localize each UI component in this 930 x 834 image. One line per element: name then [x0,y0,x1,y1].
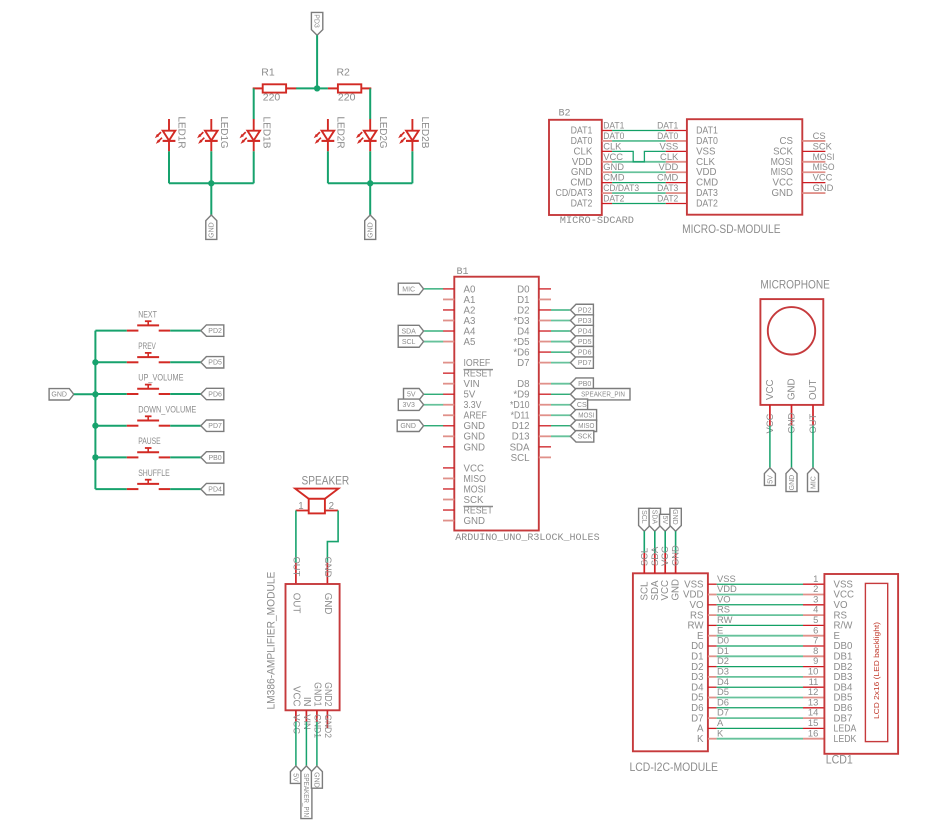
svg-text:GND: GND [209,222,216,238]
net label E [717,624,723,635]
net flag SCL [398,336,423,347]
svg-text:MISO: MISO [771,167,794,178]
svg-text:GND: GND [313,772,320,788]
pin *D6 (right row 6) of B1 [513,347,551,358]
svg-text:PREV: PREV [138,341,156,351]
pin label DB5 inside LCD1 [834,693,853,704]
svg-text:CS: CS [813,130,826,141]
pin GND of LM386 module [326,563,328,584]
wire junction to R1 [296,87,317,89]
net flag PD6 [570,346,593,357]
net label RW [717,614,733,625]
pin label DB7 inside LCD1 [834,713,853,724]
pin label IN inside LM386 [301,697,312,707]
pin SDA (right row 15) of B1 [510,442,551,453]
pin VDD of I2C module [683,590,717,601]
svg-text:5V: 5V [767,475,774,484]
pushbutton PREV [127,341,170,362]
svg-text:NEXT: NEXT [138,309,157,319]
svg-text:VCC: VCC [660,580,671,600]
pin 3.3V (left row 11) of B1 [443,400,482,411]
svg-text:CLK: CLK [574,146,593,157]
wire B1 to PD6 flag [551,351,570,353]
svg-text:220: 220 [263,92,281,104]
svg-text:MICROPHONE: MICROPHONE [760,280,830,292]
svg-text:GND: GND [368,222,375,238]
net flag PD2 [570,304,593,315]
svg-text:GND: GND [670,545,681,566]
pin D2 (right row 2) of B1 [517,305,551,316]
pin label DB0 inside LCD1 [834,641,853,652]
wire bus to switch NEXT [95,330,126,332]
svg-text:VDD: VDD [572,157,592,168]
wire B1 to MOSI flag [551,414,570,416]
pin 4 of LCD1 [803,614,824,616]
pushbutton PAUSE [127,436,170,457]
svg-text:A4: A4 [464,326,476,337]
wire 3V3 flag to B1 [424,404,444,406]
speaker SPEAKER symbol [295,489,338,514]
LCD I2C module outline [633,573,708,751]
pin label DB4 inside LCD1 [834,682,853,693]
svg-text:PD3: PD3 [578,318,592,325]
wire bus to switch UP_VOLUME [95,393,126,395]
wire D2 to LCD1 pin 9 [717,666,803,668]
wire button bus [94,331,96,490]
pin RS of I2C module [690,610,717,621]
pin label VCC inside LCD1 [834,590,854,601]
wire CLK with jog [612,151,666,161]
svg-text:AREF: AREF [464,411,487,422]
pin number 14 [808,707,818,718]
svg-text:5V: 5V [661,516,668,525]
svg-text:CMD: CMD [696,178,718,189]
wire VSS to LCD1 pin 1 [717,583,803,585]
value 220 of R2 [338,92,356,104]
pin SDA of I2C module [654,553,656,573]
svg-text:LED2R: LED2R [335,117,347,149]
svg-text:5V: 5V [464,390,476,401]
wire speaker pin1 to OUT [295,511,297,563]
wire B1 to SPEAKER_PIN flag [551,393,570,395]
svg-text:LM386-AMPLIFIER_MODULE: LM386-AMPLIFIER_MODULE [265,572,277,710]
pin A4 (left row 4) of B1 [443,326,476,337]
net label DAT3 (module side) [657,182,678,193]
pin label VCC inside microphone [765,380,776,400]
net flag SDA [398,325,423,336]
pin DAT1 of B2 [571,126,612,137]
svg-text:DAT2: DAT2 [603,193,624,204]
svg-text:GND: GND [464,421,486,432]
svg-text:LEDK: LEDK [834,734,857,745]
pin label RS inside LCD1 [834,610,848,621]
net label MOSI [813,151,835,162]
wire B1 to PD5 flag [551,341,570,343]
pin number 6 [813,624,818,635]
svg-text:SHUFFLE: SHUFFLE [138,468,170,478]
micro-SD module outline [687,119,802,215]
svg-text:MICRO-SDCARD: MICRO-SDCARD [560,215,634,227]
LM386 amplifier module outline [286,584,340,710]
pin number 13 [808,696,818,707]
ground flag GND (buttons) [49,389,74,400]
svg-text:PAUSE: PAUSE [138,436,160,446]
net label VDD [717,583,737,594]
svg-text:B1: B1 [457,266,469,278]
net label GND [670,545,681,566]
pin label VDD inside module [696,167,716,178]
pin MOSI of SD module [771,157,826,168]
node junction bus2 [367,180,373,186]
svg-text:OUT: OUT [291,593,302,614]
pin 16 of LCD1 [803,738,824,740]
net flag PD7 [570,357,593,368]
net flag SDA [649,508,660,531]
svg-text:MOSI: MOSI [578,413,594,420]
svg-text:GND: GND [464,516,486,527]
svg-text:DAT2: DAT2 [657,193,678,204]
wire 5V flag to B1 [424,393,444,395]
svg-text:*D6: *D6 [513,347,529,358]
label LCD-I2C-MODULE [630,762,719,774]
wire bus to switch PAUSE [95,456,126,458]
wire PD3 to junction [316,35,318,88]
net flag PD5 [570,336,593,347]
LED LED1B [240,117,273,152]
svg-text:SCL: SCL [640,510,647,524]
pin 11 of LCD1 [803,686,824,688]
wire cathode bus group2 [328,182,413,184]
pin label DAT2 inside module [696,199,718,210]
wire B1 to PD2 flag [551,309,570,311]
svg-text:MIC: MIC [402,286,415,293]
node junction bus [92,391,98,397]
pin VDD of SD module [666,171,687,173]
net label GND [323,557,334,578]
svg-text:CD/DAT3: CD/DAT3 [603,182,639,193]
pin VCC of microphone [769,405,771,426]
pin D6 of I2C module [691,703,716,714]
svg-text:A1: A1 [464,295,476,306]
pin A1 (left row 1) of B1 [443,295,475,306]
LED LED2G [356,117,389,152]
svg-text:VSS: VSS [660,140,679,151]
pin D8 (right row 9) of B1 [517,379,551,390]
pin D0 of I2C module [691,641,716,652]
wire B1 to PD4 flag [551,330,570,332]
svg-text:SCK: SCK [464,495,484,506]
net label VCC [659,546,670,566]
svg-text:A5: A5 [464,337,476,348]
svg-text:CS: CS [780,136,794,147]
pin VDD of B2 [572,157,612,168]
pin DAT2 of B2 [571,199,612,210]
net label GND [813,182,834,193]
pin D1 of I2C module [691,652,716,663]
net label DAT2 (module side) [657,193,678,204]
svg-text:3V3: 3V3 [402,402,415,409]
pin label GND inside LM386 [322,593,333,615]
wire microphone to GND flag [791,426,793,468]
net label VSS (module side) [660,140,679,151]
net flag GND [786,468,797,492]
svg-text:K: K [717,727,724,738]
pin GND2 of LM386 [326,710,328,728]
pin VCC (left row 17) of B1 [443,463,484,474]
svg-text:PD6: PD6 [578,349,592,356]
net label D5 [717,686,729,697]
pin *D11 (right row 12) of B1 [511,411,551,422]
pin number 2 of speaker [329,501,334,512]
pin label VCC inside I2C module [660,580,671,600]
wire LED cathode to bus [253,151,255,183]
svg-text:VIN: VIN [464,379,480,390]
svg-text:SDA: SDA [650,580,661,600]
net label OUT [807,413,818,433]
svg-text:CS: CS [577,402,587,409]
pin A3 (left row 3) of B1 [443,316,475,327]
pin label VSS inside LCD1 [834,579,854,590]
pin label GND2 inside LM386 [322,682,333,706]
wire D4 to LCD1 pin 11 [717,686,803,688]
svg-text:SCL: SCL [511,453,530,464]
net flag PD3 [570,315,593,326]
svg-text:SCK: SCK [578,434,593,441]
LED LED1R [155,117,188,152]
net label VSS [717,573,736,584]
label LM386-AMPLIFIER_MODULE [265,572,277,710]
pin 6 of LCD1 [803,635,824,637]
svg-text:DAT2: DAT2 [696,199,718,210]
svg-text:DAT0: DAT0 [657,130,678,141]
wire B1 to MISO flag [551,425,570,427]
LED LED2B [398,117,431,152]
pin MISO of SD module [771,167,826,178]
Arduino B1 outline [454,277,539,531]
svg-text:SDA: SDA [401,328,416,335]
svg-text:PD2: PD2 [208,328,222,335]
svg-text:LED2B: LED2B [419,117,431,149]
node junction bus [92,454,98,460]
wire bus to switch PREV [95,361,126,363]
svg-text:SPEAKER_PIN: SPEAKER_PIN [581,392,625,399]
net label DAT1 (module side) [657,120,678,131]
svg-text:A3: A3 [464,316,476,327]
svg-text:CMD: CMD [603,172,625,183]
pin VCC of LM386 [295,710,297,722]
svg-text:SDA: SDA [649,546,660,566]
net label CD/DAT3 [603,182,639,193]
pin CLK of SD module [666,161,687,163]
svg-text:PD7: PD7 [208,423,222,430]
net label DAT0 [603,130,624,141]
net flag PD5 [201,357,224,368]
wire microphone to 5V flag [769,426,771,468]
pushbutton NEXT [127,309,170,330]
pin A5 (left row 5) of B1 [443,337,475,348]
net label CLK (module side) [660,151,679,162]
wire R1 to LED1B anode [253,88,255,119]
svg-text:OUT: OUT [292,557,303,577]
svg-text:MIC: MIC [810,476,817,489]
wire RW to LCD1 pin 5 [717,624,803,626]
svg-text:GND2: GND2 [323,714,334,738]
svg-text:SCL: SCL [639,581,650,600]
pin label GND1 inside LM386 [312,682,323,706]
svg-text:GND1: GND1 [313,714,324,738]
svg-text:VCC: VCC [603,151,623,162]
svg-text:GND: GND [400,423,416,430]
svg-text:PB0: PB0 [578,381,591,388]
pin label SDA inside I2C module [650,580,661,600]
svg-text:UP_VOLUME: UP_VOLUME [138,373,183,383]
svg-text:*D9: *D9 [513,390,529,401]
pin OUT of microphone [812,405,814,426]
svg-text:D2: D2 [517,305,529,316]
pin DAT2 of SD module [666,203,687,205]
wire B1 to PD7 flag [551,362,570,364]
net label D6 [717,696,729,707]
pin number 2 [813,583,818,594]
pin DAT3 of SD module [666,192,687,194]
svg-text:R1: R1 [261,67,275,79]
svg-text:DAT0: DAT0 [696,136,718,147]
svg-text:3.3V: 3.3V [464,400,482,411]
svg-text:GND1: GND1 [312,682,323,706]
pin GND1 of LM386 [316,710,318,722]
pin A2 (left row 2) of B1 [443,305,475,316]
pin label GND inside microphone [787,378,798,400]
pin 14 of LCD1 [803,717,824,719]
svg-text:MISO: MISO [464,474,487,485]
wire speaker pin2 to GND [327,511,338,563]
wire LED cathode to bus [327,151,329,183]
wire CMD to CMD [612,182,666,184]
svg-text:GND: GND [787,378,798,400]
pin IOREF (left row 7) of B1 [443,358,490,369]
net flag GND [670,508,681,531]
net flag 5V [660,514,671,531]
pin label GND inside I2C module [671,579,682,601]
pin RESET (left row 21) of B1 [443,505,493,516]
wire 5V flag to module [664,531,666,553]
svg-text:*D3: *D3 [513,316,529,327]
pin CLK of B2 [574,146,613,157]
pin label SCL inside I2C module [639,581,650,600]
label B2 [559,108,571,120]
pin 2 of LCD1 [803,594,824,596]
svg-text:SCK: SCK [813,140,833,151]
wire SCL flag to B1 [424,341,444,343]
pin SCK (left row 20) of B1 [443,495,484,506]
pin number 1 of speaker [298,501,303,512]
svg-text:CMD: CMD [657,172,679,183]
pin *D10 (right row 11) of B1 [510,400,551,411]
LED LED1G [197,117,230,152]
node junction bus1 [208,180,214,186]
pin VO of I2C module [690,600,717,611]
net label VCC [764,413,775,433]
svg-text:CD/DAT3: CD/DAT3 [556,188,593,199]
svg-text:GND: GND [671,509,678,525]
pin AREF (left row 12) of B1 [443,411,487,422]
wire CD/DAT3 to DAT3 [612,192,666,194]
label ARDUINO_UNO_R3LOCK_HOLES [455,532,599,544]
net label DAT2 [603,193,624,204]
label SPEAKER [302,476,350,488]
svg-text:A2: A2 [464,305,476,316]
svg-text:PD4: PD4 [578,328,592,335]
pin 9 of LCD1 [803,666,824,668]
pin GND of microphone [791,405,793,426]
pin *D3 (right row 3) of B1 [513,316,551,327]
svg-text:D8: D8 [517,379,529,390]
svg-text:D1: D1 [517,295,529,306]
net label CLK [603,140,622,151]
wire K to LCD1 pin 16 [717,738,803,740]
svg-text:5V: 5V [292,773,299,782]
pin D2 of I2C module [691,662,716,673]
pushbutton UP_VOLUME [127,373,184,394]
ground flag GND (LED group 2) [365,215,376,239]
node junction bus [92,359,98,365]
svg-text:*D10: *D10 [510,400,530,411]
wire bus to switch SHUFFLE [95,488,126,490]
pin 5 of LCD1 [803,624,824,626]
net label GND2 [323,714,334,738]
net label OUT [292,557,303,577]
svg-text:LCD1: LCD1 [826,754,853,766]
pin CS of SD module [780,136,826,147]
net flag SPEAKER_PIN [301,766,312,819]
wire D5 to LCD1 pin 12 [717,697,803,699]
svg-text:VCC: VCC [292,714,303,734]
svg-text:PD4: PD4 [208,487,222,494]
pin label DB2 inside LCD1 [834,662,853,673]
svg-text:CLK: CLK [696,157,715,168]
microphone capsule circle [768,307,815,354]
net label DAT0 (module side) [657,130,678,141]
svg-text:GND: GND [771,188,793,199]
wire GND to VDD [612,171,666,173]
svg-text:GND: GND [323,557,334,578]
svg-text:ARDUINO_UNO_R3LOCK_HOLES: ARDUINO_UNO_R3LOCK_HOLES [455,532,599,544]
wire GND flag to B1 [424,425,444,427]
svg-text:GND: GND [322,593,333,615]
svg-text:GND: GND [51,392,67,399]
net label SCL [638,548,649,566]
net flag PD3 [311,12,322,35]
label B1 [457,266,469,278]
svg-text:LCD-I2C-MODULE: LCD-I2C-MODULE [630,762,719,774]
pin label OUT inside microphone [808,379,819,400]
svg-text:VCC: VCC [813,172,833,183]
svg-text:CMD: CMD [570,178,592,189]
label LCD1 [826,754,853,766]
micro-SD card B2 outline [549,120,602,215]
wire GND to bus [74,393,96,395]
pin OUT of LM386 module [295,563,297,584]
wire B1 to PD3 flag [551,319,570,321]
pin 8 of LCD1 [803,655,824,657]
net label SCK [813,140,833,151]
svg-text:SDA: SDA [650,510,657,525]
pin *D9 (right row 10) of B1 [513,390,551,401]
pin label VSS inside module [696,146,716,157]
net label D0 [717,635,729,646]
wire DAT2 to DAT2 [612,203,666,205]
svg-text:SPEAKER_PIN: SPEAKER_PIN [302,773,309,817]
